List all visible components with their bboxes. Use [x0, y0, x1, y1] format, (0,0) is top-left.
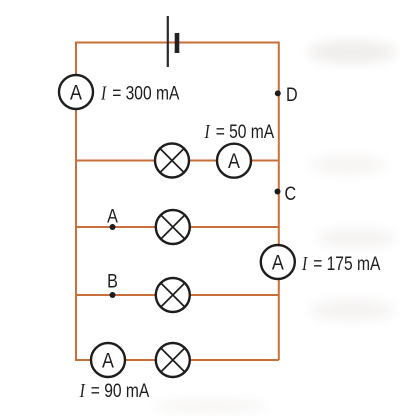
wire branch row 1	[76, 160, 279, 162]
lamp L4 (row 4)	[156, 343, 190, 377]
node B	[110, 292, 116, 298]
svg-text:D: D	[286, 84, 298, 106]
svg-text:A: A	[102, 349, 114, 373]
wire left vertical	[75, 42, 77, 361]
svg-text:I= 300 mA: I= 300 mA	[100, 82, 179, 104]
node A	[110, 224, 116, 230]
label I = 50 mA	[204, 121, 275, 143]
svg-text:B: B	[107, 270, 118, 292]
lamp L1 (row 1)	[155, 144, 189, 178]
svg-text:A: A	[228, 150, 240, 174]
ammeter A4 (bottom, I = 90 mA)	[91, 343, 125, 377]
ammeter A3 (right, I = 175 mA)	[261, 245, 295, 279]
lamp L2 (row 2)	[156, 210, 190, 244]
svg-text:A: A	[107, 205, 118, 227]
svg-text:A: A	[70, 81, 82, 105]
ammeter A2 (row 1)	[217, 144, 251, 178]
svg-text:C: C	[285, 183, 297, 205]
wire bottom row 4	[75, 359, 279, 361]
svg-text:A: A	[272, 251, 284, 275]
wire: outer loop	[75, 42, 279, 361]
lamp L3 (row 3)	[156, 278, 190, 312]
ammeter A1 (left, I = 300 mA)	[59, 75, 93, 109]
label I = 175 mA	[301, 252, 380, 274]
wire branch row 3	[76, 294, 279, 296]
label I = 90 mA	[79, 379, 150, 401]
battery short thick plate	[175, 33, 180, 53]
battery long plate	[167, 16, 169, 67]
battery B1	[167, 16, 180, 67]
label I = 300 mA	[100, 82, 179, 104]
wire right vertical	[278, 42, 280, 361]
node D	[275, 90, 281, 96]
svg-text:I= 175 mA: I= 175 mA	[301, 252, 380, 274]
wire top: left corner to right corner	[76, 42, 279, 44]
wire branch row 2	[76, 226, 279, 228]
node C	[275, 189, 281, 195]
